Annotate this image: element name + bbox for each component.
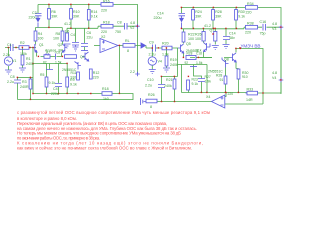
- svg-text:2N5551C: 2N5551C: [62, 68, 77, 72]
- svg-text:C16: C16: [260, 20, 267, 24]
- svg-text:Q8: Q8: [224, 58, 229, 62]
- svg-text:C14: C14: [229, 32, 236, 36]
- svg-text:R26: R26: [148, 93, 155, 97]
- svg-text:V4: V4: [272, 76, 276, 80]
- svg-text:100: 100: [188, 37, 194, 41]
- svg-text:R34: R34: [247, 2, 254, 6]
- svg-text:R21: R21: [166, 78, 173, 82]
- svg-text:R33: R33: [247, 88, 254, 92]
- svg-text:R6: R6: [51, 10, 56, 14]
- svg-text:R27: R27: [205, 75, 211, 79]
- svg-text:9.1k: 9.1k: [192, 82, 199, 86]
- svg-text:R12: R12: [93, 71, 100, 75]
- svg-text:240k: 240k: [170, 63, 178, 67]
- svg-text:V2: V2: [130, 26, 134, 30]
- svg-text:C8: C8: [10, 75, 15, 79]
- svg-text:2.2u: 2.2u: [145, 84, 152, 88]
- svg-text:8: 8: [127, 49, 129, 53]
- svg-text:R2: R2: [20, 41, 25, 45]
- svg-text:R20: R20: [162, 42, 169, 46]
- svg-text:C14: C14: [157, 12, 164, 16]
- svg-text:22u: 22u: [87, 36, 93, 40]
- svg-text:R5: R5: [40, 73, 44, 77]
- svg-text:C4: C4: [53, 87, 58, 91]
- svg-text:R28: R28: [215, 10, 222, 14]
- svg-text:39K: 39K: [215, 15, 222, 19]
- svg-text:39K: 39K: [51, 15, 58, 19]
- svg-text:220: 220: [101, 9, 107, 13]
- svg-text:R4: R4: [38, 32, 43, 36]
- svg-text:14R: 14R: [246, 98, 253, 102]
- svg-text:220u: 220u: [51, 92, 59, 96]
- svg-text:C4: C4: [71, 33, 75, 37]
- svg-text:100: 100: [195, 37, 201, 41]
- svg-text:9.1k: 9.1k: [238, 15, 245, 19]
- svg-text:91k: 91k: [196, 49, 202, 53]
- svg-text:100: 100: [53, 37, 59, 41]
- svg-text:R19: R19: [170, 58, 177, 62]
- svg-text:C10: C10: [147, 78, 154, 82]
- svg-text:УМЗЧ ВВ: УМЗЧ ВВ: [241, 44, 261, 49]
- svg-text:220: 220: [228, 92, 234, 96]
- svg-text:R18: R18: [103, 21, 110, 25]
- svg-text:1.5k: 1.5k: [55, 61, 62, 65]
- svg-text:R23: R23: [192, 78, 198, 82]
- svg-text:9.1k: 9.1k: [70, 83, 77, 87]
- svg-text:48v: 48v: [229, 36, 235, 40]
- svg-text:1.5k: 1.5k: [196, 61, 203, 65]
- svg-text:220: 220: [93, 76, 99, 80]
- svg-text:75p: 75p: [260, 32, 266, 36]
- svg-text:41.2: 41.2: [64, 22, 71, 26]
- svg-text:8: 8: [150, 105, 152, 109]
- svg-text:1k0: 1k0: [103, 97, 109, 101]
- svg-text:9.1k: 9.1k: [49, 81, 56, 85]
- svg-text:R38: R38: [247, 22, 254, 26]
- svg-text:с разомкнутой петлей ООС выход: с разомкнутой петлей ООС выходное сопрот…: [17, 110, 210, 115]
- svg-text:Q7: Q7: [210, 29, 215, 33]
- svg-text:1.9k: 1.9k: [205, 80, 212, 84]
- svg-text:2.2u: 2.2u: [3, 53, 10, 57]
- svg-text:R24: R24: [195, 10, 202, 14]
- svg-text:220u: 220u: [29, 16, 37, 20]
- svg-text:V1: V1: [12, 59, 16, 63]
- svg-text:R14: R14: [91, 10, 98, 14]
- svg-text:V4: V4: [158, 60, 162, 64]
- svg-text:220: 220: [101, 30, 107, 34]
- svg-text:RL: RL: [125, 39, 130, 43]
- svg-text:C8: C8: [117, 21, 122, 25]
- svg-text:C8: C8: [56, 51, 60, 55]
- svg-text:R28: R28: [187, 52, 193, 56]
- svg-text:4.8: 4.8: [272, 71, 277, 75]
- svg-text:R10: R10: [73, 10, 80, 14]
- svg-text:R8: R8: [56, 32, 61, 36]
- svg-text:R26: R26: [195, 33, 202, 37]
- svg-text:39K: 39K: [195, 15, 202, 19]
- svg-text:X4: X4: [206, 95, 210, 99]
- svg-text:240k: 240k: [26, 62, 34, 66]
- svg-text:1.0k: 1.0k: [20, 52, 27, 56]
- svg-text:C6: C6: [87, 31, 92, 35]
- svg-text:R22: R22: [188, 33, 195, 37]
- svg-text:220: 220: [245, 31, 251, 35]
- svg-text:R28: R28: [216, 74, 222, 78]
- svg-text:R7: R7: [46, 51, 50, 55]
- svg-text:Q5: Q5: [186, 42, 191, 46]
- svg-text:220: 220: [246, 11, 252, 15]
- svg-text:C3: C3: [32, 11, 37, 15]
- svg-text:V3: V3: [272, 27, 276, 31]
- svg-text:91: 91: [220, 78, 224, 82]
- svg-text:Q2: Q2: [58, 43, 63, 47]
- svg-text:4.8: 4.8: [130, 21, 135, 25]
- svg-text:39K: 39K: [73, 15, 80, 19]
- svg-text:C9: C9: [149, 41, 154, 45]
- svg-text:R3: R3: [22, 80, 27, 84]
- svg-text:750: 750: [115, 30, 121, 34]
- svg-text:1.6: 1.6: [65, 30, 70, 34]
- svg-text:4.8: 4.8: [272, 22, 277, 26]
- svg-text:как вижу и сейчас это не поним: как вижу и сейчас это не понимает секта …: [17, 145, 192, 150]
- svg-text:R30: R30: [238, 10, 245, 14]
- svg-text:R1: R1: [26, 57, 31, 61]
- svg-text:910: 910: [71, 76, 77, 80]
- svg-text:X2: X2: [101, 35, 105, 39]
- svg-text:41.2: 41.2: [204, 24, 211, 28]
- svg-text:9.1k: 9.1k: [91, 15, 98, 19]
- svg-text:82: 82: [43, 61, 47, 65]
- svg-text:R18: R18: [102, 87, 109, 91]
- svg-text:92: 92: [185, 61, 189, 65]
- svg-text:220u: 220u: [154, 16, 162, 20]
- svg-text:2.2u: 2.2u: [7, 80, 14, 84]
- svg-text:240R: 240R: [20, 85, 29, 89]
- svg-text:1.0k: 1.0k: [162, 53, 169, 57]
- svg-text:100: 100: [37, 37, 43, 41]
- svg-text:Q4: Q4: [80, 55, 85, 59]
- svg-text:Q1: Q1: [39, 43, 44, 47]
- svg-text:910: 910: [242, 75, 248, 79]
- svg-text:2.2: 2.2: [130, 70, 135, 74]
- svg-text:C1: C1: [7, 43, 12, 47]
- svg-text:240k: 240k: [164, 84, 172, 88]
- svg-text:R16: R16: [103, 0, 110, 3]
- svg-text:2.2u: 2.2u: [149, 53, 156, 57]
